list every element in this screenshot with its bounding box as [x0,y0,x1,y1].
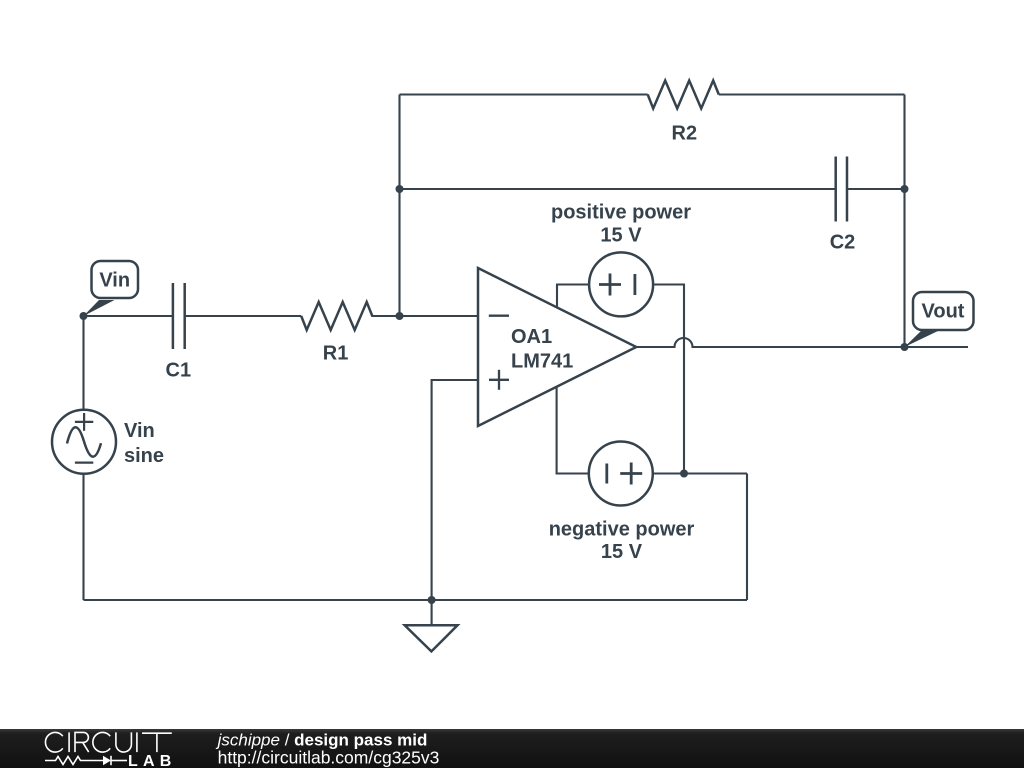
svg-text:negative power: negative power [549,519,695,541]
svg-text:Vin: Vin [99,270,130,292]
svg-text:positive power: positive power [551,202,691,224]
svg-text:sine: sine [124,445,164,467]
svg-text:15 V: 15 V [601,541,643,563]
svg-text:Vout: Vout [922,301,965,323]
svg-text:LAB: LAB [128,753,176,768]
svg-text:C2: C2 [830,232,856,254]
svg-text:Vin: Vin [124,420,155,442]
svg-text:LM741: LM741 [511,350,573,372]
svg-text:15 V: 15 V [600,224,642,246]
svg-text:OA1: OA1 [511,326,552,348]
svg-text:http://circuitlab.com/cg325v3: http://circuitlab.com/cg325v3 [218,748,440,768]
svg-text:C1: C1 [166,360,192,382]
svg-text:R1: R1 [323,342,349,364]
svg-text:R2: R2 [672,122,698,144]
